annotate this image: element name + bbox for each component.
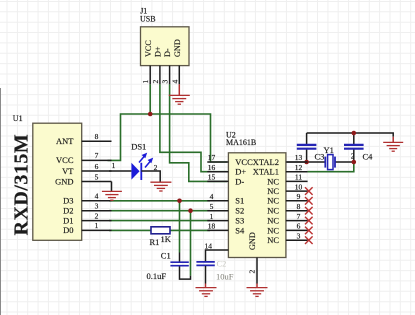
J1 pin 1 VCC stub <box>149 66 151 85</box>
U2 pin 18 stub <box>207 229 228 231</box>
U2 pin label NC <box>267 196 279 206</box>
wire D2 net: U1 pin3 to U2 S2 <box>109 210 210 212</box>
svg-text:6: 6 <box>297 222 301 231</box>
svg-text:USB: USB <box>140 14 156 23</box>
U1 pin 7 stub <box>82 159 112 161</box>
LED DS1 pin 1 number <box>112 161 116 170</box>
ground GND symbol at USB pin4 <box>169 84 190 104</box>
svg-text:4: 4 <box>95 192 99 201</box>
svg-text:NC: NC <box>267 186 279 196</box>
U2 pin 4 number <box>210 192 214 201</box>
svg-text:17: 17 <box>208 153 216 162</box>
U2 pin label NC <box>267 176 279 186</box>
LED DS1 cathode bar <box>140 163 142 180</box>
U2 pin 10 number <box>295 182 303 191</box>
U2 pin 17 stub <box>207 161 228 163</box>
U2 pin label VCC <box>235 157 253 167</box>
wire C2 to ground <box>205 266 207 288</box>
U2 pin 1 number <box>210 212 214 221</box>
crystal Y1 pin 2 number <box>351 152 355 161</box>
wire C1 top: D3 net junction down to C1 <box>179 201 181 262</box>
U2 pin label XTAL2 <box>253 157 279 167</box>
svg-text:NC: NC <box>267 216 279 226</box>
U2 pin label NC <box>267 216 279 226</box>
U2 pin 6 stub <box>286 229 308 231</box>
ground GND symbol top-right (crystal) <box>383 142 403 151</box>
no-connect X on U2 pin 10 <box>305 187 313 195</box>
U1 designator <box>13 114 23 123</box>
U2 pin 12 stub <box>286 171 308 173</box>
svg-text:Y1: Y1 <box>324 145 334 155</box>
svg-text:7: 7 <box>95 151 99 160</box>
svg-text:1: 1 <box>112 161 116 170</box>
U2 GND pin 2 number <box>248 270 257 274</box>
U2 pin 11 stub <box>286 180 308 182</box>
U1 pin 4 number <box>95 192 99 201</box>
crystal Y1 designator <box>324 145 334 155</box>
svg-text:3: 3 <box>297 231 301 240</box>
U2 designator <box>226 130 236 139</box>
J1 pin 3 number <box>161 80 170 84</box>
svg-text:3: 3 <box>95 202 99 211</box>
U1 pin 6 stub <box>82 170 112 172</box>
svg-text:D3: D3 <box>63 196 73 206</box>
junction D2 net / C1 hook <box>188 208 193 213</box>
svg-text:2: 2 <box>151 80 160 84</box>
junction C3 / XTAL2 node <box>304 160 309 165</box>
ground GND symbol at C2 <box>196 288 217 297</box>
U2 pin 15 number <box>208 173 216 182</box>
J1 pin 3 D- stub <box>169 66 171 85</box>
connector J1 body <box>141 27 190 66</box>
svg-text:GND: GND <box>173 39 182 57</box>
svg-text:D+: D+ <box>154 46 163 57</box>
R1 value 1K <box>161 234 172 244</box>
U2 pin 16 stub <box>207 171 228 173</box>
svg-text:S3: S3 <box>235 216 244 226</box>
svg-text:0.1uF: 0.1uF <box>147 271 167 281</box>
capacitor C3 plates <box>297 145 317 149</box>
U1 pin 3 number <box>95 202 99 211</box>
C1 designator <box>161 250 171 260</box>
LED DS1 pin 2 number <box>154 163 158 172</box>
svg-text:C1: C1 <box>161 250 171 260</box>
wire C1 bottom hook from D2 net <box>180 211 191 279</box>
wire C3 down to XTAL2 node <box>306 149 308 162</box>
U2 pin 3 number <box>297 231 301 240</box>
U1 pin 1 number <box>95 221 99 230</box>
J1 pin 2 number <box>151 80 160 84</box>
svg-text:NC: NC <box>267 206 279 216</box>
C2 value 10uF <box>216 272 234 282</box>
wire D0 net right: R1 to U2 S4 <box>170 229 210 231</box>
svg-text:D2: D2 <box>63 206 73 216</box>
U1 body <box>33 123 82 240</box>
resistor R1 body <box>151 227 170 234</box>
wire D3 net: U1 pin4 to U2 S1 <box>109 200 210 202</box>
svg-text:DS1: DS1 <box>131 142 146 152</box>
svg-text:U1: U1 <box>13 114 23 123</box>
J1 value USB <box>140 14 156 23</box>
svg-text:1: 1 <box>141 80 150 84</box>
svg-text:ANT: ANT <box>56 136 74 146</box>
U2 pin label S3 <box>235 216 244 226</box>
svg-text:3: 3 <box>161 80 170 84</box>
U2 body <box>228 153 286 258</box>
LED DS1 arrow 2 <box>145 158 153 168</box>
junction C4 / crystal node <box>352 160 357 165</box>
U2 pin 11 number <box>295 173 302 182</box>
svg-text:S4: S4 <box>235 225 245 235</box>
svg-text:7: 7 <box>297 212 301 221</box>
U2 pin 7 number <box>297 212 301 221</box>
svg-text:15: 15 <box>208 173 216 182</box>
svg-text:5: 5 <box>210 202 214 211</box>
svg-text:C2: C2 <box>217 258 227 268</box>
U2 pin label NC <box>267 225 279 235</box>
U1 pin label VT <box>62 166 74 176</box>
junction VCC rail / USB pin1 <box>148 112 153 117</box>
svg-text:NC: NC <box>267 176 279 186</box>
U2 pin label S2 <box>235 206 244 216</box>
U2 pin 9 stub <box>286 200 308 202</box>
U1 pin 4 stub <box>82 200 112 202</box>
capacitor C2 plates <box>196 262 214 266</box>
svg-text:NC: NC <box>267 196 279 206</box>
wire C3 stub up to rail <box>306 133 308 144</box>
U2 pin label S1 <box>235 196 244 206</box>
U1 pin 1 stub <box>82 229 112 231</box>
U2 pin 15 stub <box>207 180 228 182</box>
svg-text:4: 4 <box>170 80 179 84</box>
junction D3 net / C1 <box>177 199 182 204</box>
crystal Y1 left plate <box>324 157 326 168</box>
svg-text:2: 2 <box>248 270 257 274</box>
wire D0 net left: U1 pin1 to R1 <box>109 229 151 231</box>
U1 pin 2 number <box>95 211 99 220</box>
U1 pin label VCC <box>56 155 74 165</box>
J1 pin label GND <box>173 39 182 57</box>
C4 designator <box>363 152 374 162</box>
wire USB D- to U2 pin15 <box>170 84 227 181</box>
svg-text:R1: R1 <box>150 237 160 247</box>
junction C4 / ground rail <box>352 131 357 136</box>
no-connect X on U2 pin 3 <box>305 236 313 244</box>
svg-text:1: 1 <box>210 212 214 221</box>
U1 pin 8 number <box>95 132 99 141</box>
LED DS1 triangle <box>131 163 139 180</box>
no-connect X on U2 pin 8 <box>305 207 313 215</box>
U1 pin 8 stub <box>82 140 112 142</box>
ground GND symbol at U2 pin2 <box>247 284 268 297</box>
wire VCC net: U1 pin7 to rail to USB pin1 to U2 pin17 <box>108 114 228 162</box>
wire XTAL ground rail <box>307 133 394 142</box>
svg-text:9: 9 <box>297 192 301 201</box>
U2 pin 1 stub <box>207 220 228 222</box>
U2 pin 13 number <box>295 153 303 162</box>
svg-text:D0: D0 <box>63 225 73 235</box>
no-connect X on U2 pin 9 <box>305 197 313 205</box>
U2 pin 18 number <box>208 222 216 231</box>
LED DS1 cathode wire <box>141 171 160 182</box>
J1 pin 4 number <box>170 80 179 84</box>
svg-text:XTAL1: XTAL1 <box>253 167 279 177</box>
svg-text:VCC: VCC <box>56 155 74 165</box>
svg-text:NC: NC <box>267 235 279 245</box>
LED DS1 arrow 1 <box>139 153 147 163</box>
svg-text:VT: VT <box>62 166 74 176</box>
svg-text:16: 16 <box>208 163 216 172</box>
no-connect X on U2 pin 7 <box>305 217 313 225</box>
U2 pin 4 stub <box>207 200 228 202</box>
wire XTAL2 row: U2 pin13 to crystal pin1 <box>287 161 325 163</box>
svg-text:D1: D1 <box>63 215 73 225</box>
U1 pin 3 stub <box>82 210 112 212</box>
svg-text:D-: D- <box>163 48 172 57</box>
U2 pin 12 number <box>295 163 303 172</box>
svg-text:C4: C4 <box>363 152 374 162</box>
U2 pin label NC <box>267 206 279 216</box>
U1 pin 6 number <box>95 162 99 171</box>
svg-text:S1: S1 <box>235 196 244 206</box>
svg-text:8: 8 <box>297 202 301 211</box>
svg-text:VCC: VCC <box>235 157 253 167</box>
C1 value 0.1uF <box>147 271 167 281</box>
capacitor C4 plates <box>344 145 364 149</box>
ground GND symbol at LED cathode <box>150 182 171 191</box>
U2 pin 7 stub <box>286 220 308 222</box>
crystal Y1 body <box>328 155 333 170</box>
U1 pin label D2 <box>63 206 73 216</box>
U2 pin label S4 <box>235 225 245 235</box>
U1 pin 7 number <box>95 151 99 160</box>
svg-text:5: 5 <box>95 172 99 181</box>
U1 pin 5 stub <box>82 181 112 183</box>
U2 pin 8 stub <box>286 210 308 212</box>
wire USB D+ to U2 pin16 <box>160 84 227 171</box>
svg-text:2: 2 <box>351 152 355 161</box>
U2 pin 8 number <box>297 202 301 211</box>
svg-text:11: 11 <box>295 173 302 182</box>
U1 pin 5 number <box>95 172 99 181</box>
U2 pin label D- <box>235 176 244 186</box>
U2 pin 10 stub <box>286 190 308 192</box>
svg-text:6: 6 <box>95 162 99 171</box>
svg-text:10uF: 10uF <box>216 272 234 282</box>
C2 designator <box>217 258 227 268</box>
svg-text:XTAL2: XTAL2 <box>253 157 279 167</box>
U1 pin label D1 <box>63 215 73 225</box>
svg-text:1K: 1K <box>161 234 172 244</box>
U2 pin 16 number <box>208 163 216 172</box>
U2 pin label D+ <box>235 167 246 177</box>
J1 pin label D- <box>163 48 172 57</box>
svg-text:8: 8 <box>95 132 99 141</box>
svg-text:4: 4 <box>210 192 214 201</box>
J1 pin 1 number <box>141 80 150 84</box>
svg-text:GND: GND <box>248 232 257 250</box>
svg-text:MA161B: MA161B <box>226 138 256 147</box>
U2 pin 5 stub <box>207 210 228 212</box>
no-connect X on U2 pin 6 <box>305 227 313 235</box>
crystal Y1 right plate <box>334 157 336 168</box>
svg-text:GND: GND <box>55 176 73 186</box>
U1 pin label ANT <box>56 136 74 146</box>
U2 part name MA161B <box>226 138 256 147</box>
J1 pin 2 D+ stub <box>159 66 161 85</box>
U2 pin 6 number <box>297 222 301 231</box>
capacitor C1 plates <box>170 262 188 266</box>
svg-text:RXD/315M: RXD/315M <box>11 134 33 236</box>
DS1 designator <box>131 142 146 152</box>
U1 pin label D0 <box>63 225 73 235</box>
U2 pin label NC <box>267 186 279 196</box>
U1 pin label D3 <box>63 196 73 206</box>
U2 pin 9 number <box>297 192 301 201</box>
J1 designator <box>140 7 147 16</box>
U2 GND pin label <box>248 232 257 250</box>
svg-text:1: 1 <box>95 221 99 230</box>
U2 pin 14 number <box>205 242 213 251</box>
wire USB pin1 drop to VCC rail <box>149 84 151 114</box>
svg-text:10: 10 <box>295 182 303 191</box>
U2 pin 5 number <box>210 202 214 211</box>
U1 pin label GND <box>55 176 73 186</box>
U1 part name RXD/315M <box>11 134 33 236</box>
wire U2 XTAL1 pin12 to crystal right node <box>308 162 354 172</box>
svg-text:D+: D+ <box>235 167 246 177</box>
svg-text:NC: NC <box>267 225 279 235</box>
U2 pin label NC <box>267 235 279 245</box>
U2 pin 17 number <box>208 153 216 162</box>
wire C4 down to crystal right node <box>353 149 355 162</box>
svg-text:VCC: VCC <box>144 40 153 57</box>
U2 pin 14 stub and wire to C2 <box>206 250 229 262</box>
svg-text:13: 13 <box>295 153 303 162</box>
U2 pin 3 stub <box>286 239 308 241</box>
C3 designator <box>315 152 325 162</box>
J1 pin label VCC <box>144 40 153 57</box>
ground GND symbol at U1 pin5 <box>102 182 122 201</box>
svg-text:2: 2 <box>95 211 99 220</box>
svg-text:D-: D- <box>235 176 244 186</box>
J1 pin 4 GND stub <box>178 66 180 85</box>
R1 designator <box>150 237 160 247</box>
svg-text:14: 14 <box>205 242 213 251</box>
svg-text:18: 18 <box>208 222 216 231</box>
LED DS1 anode wire from U1 VT <box>109 170 131 172</box>
U2 pin label XTAL1 <box>253 167 279 177</box>
svg-text:S2: S2 <box>235 206 244 216</box>
svg-text:12: 12 <box>295 163 303 172</box>
wire crystal pin2 to C4 node <box>335 161 354 163</box>
J1 pin label D+ <box>154 46 163 57</box>
U2 pin 13 stub <box>286 161 308 163</box>
U1 pin 2 stub <box>82 220 112 222</box>
wire D1 net: U1 pin2 to U2 S3 <box>109 220 210 222</box>
wire C4 stub up to rail <box>353 133 355 144</box>
U2 GND pin 2 stub <box>256 258 258 284</box>
